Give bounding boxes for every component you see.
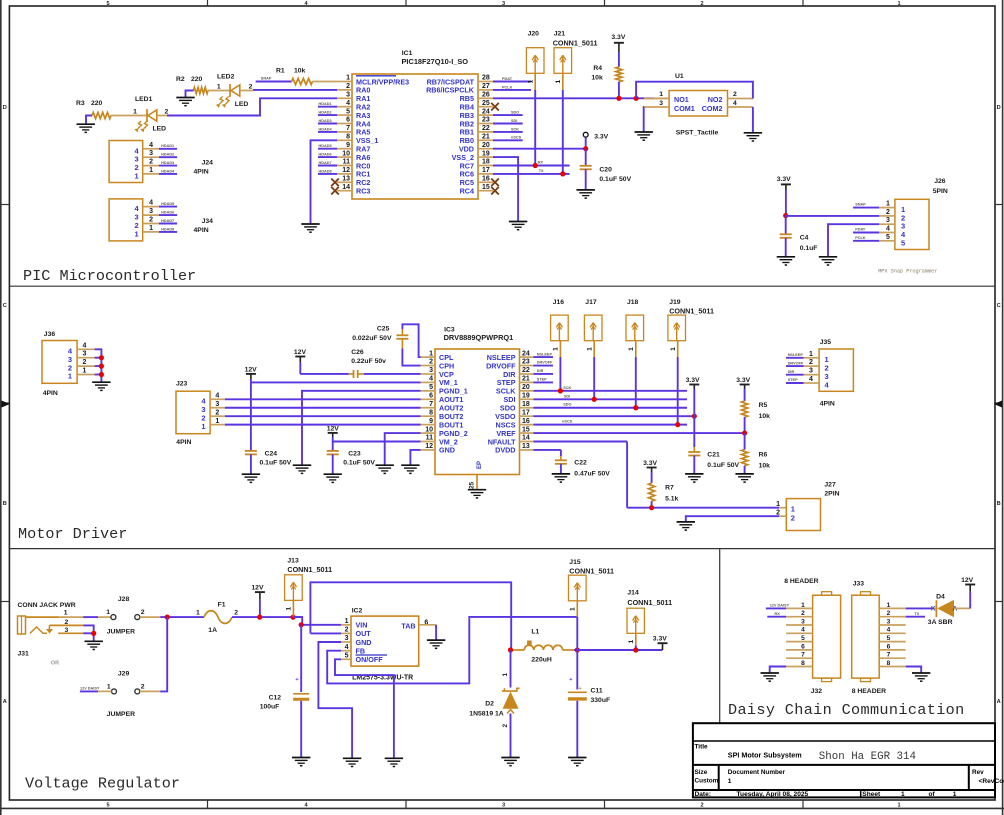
svg-text:RX: RX xyxy=(775,612,781,616)
svg-text:24: 24 xyxy=(522,350,530,357)
ground at IC3 EP xyxy=(468,489,486,491)
jumper J28 xyxy=(111,615,116,620)
svg-text:J32: J32 xyxy=(811,688,823,695)
svg-text:8 HEADER: 8 HEADER xyxy=(784,578,818,585)
IC1 no-connect pin 14 xyxy=(331,187,339,195)
svg-text:HDAD7: HDAD7 xyxy=(319,161,332,165)
connector J24 body xyxy=(109,141,143,183)
svg-text:1: 1 xyxy=(201,422,205,431)
J23 pin stubs and numbers xyxy=(210,398,225,400)
svg-text:12V DAISY: 12V DAISY xyxy=(770,604,790,608)
svg-text:LED1: LED1 xyxy=(135,96,153,103)
wire rail corner to VIN xyxy=(293,617,302,625)
svg-text:1: 1 xyxy=(135,171,139,180)
ground at C21 xyxy=(685,473,703,475)
svg-text:HDAD3: HDAD3 xyxy=(161,161,174,165)
svg-text:NO2: NO2 xyxy=(708,95,723,104)
connector J21 xyxy=(554,48,572,74)
wire DVDD to C22 xyxy=(533,449,561,451)
wire 12V DAISY to J29 xyxy=(80,690,98,692)
resistor R5 xyxy=(742,401,748,417)
wire J28 to F1 xyxy=(140,616,160,618)
svg-text:1: 1 xyxy=(107,684,111,691)
svg-text:GND: GND xyxy=(356,638,372,647)
microcontroller IC1 body xyxy=(352,74,478,199)
svg-text:4: 4 xyxy=(149,142,153,149)
svg-text:1: 1 xyxy=(728,778,732,785)
svg-text:J13: J13 xyxy=(287,557,299,564)
svg-text:12V: 12V xyxy=(327,426,340,433)
svg-text:19: 19 xyxy=(482,150,490,157)
svg-text:3: 3 xyxy=(346,92,350,99)
border frame xyxy=(0,0,2,815)
svg-text:Document Number: Document Number xyxy=(728,769,786,776)
wire C23 to ground xyxy=(332,454,334,474)
svg-text:2: 2 xyxy=(733,91,737,98)
LED2 emission arrows xyxy=(220,97,224,105)
wire OUT loop over IC2 xyxy=(310,632,341,634)
junction SCLK-J16 xyxy=(558,388,563,393)
svg-text:PIC Microcontroller: PIC Microcontroller xyxy=(23,267,196,285)
LED LED1 xyxy=(146,109,148,122)
daisy section divider vertical xyxy=(719,549,721,724)
svg-text:1: 1 xyxy=(570,607,577,611)
svg-text:C11: C11 xyxy=(591,688,603,695)
svg-text:Custom: Custom xyxy=(695,778,719,785)
junction VIN-C12 xyxy=(299,622,304,627)
svg-text:CONN1_5011: CONN1_5011 xyxy=(669,307,714,316)
svg-text:4: 4 xyxy=(215,393,219,400)
connector J34 pin stubs xyxy=(143,206,159,208)
svg-text:14: 14 xyxy=(342,184,350,191)
wire J33 pin8 to ground xyxy=(906,667,922,673)
J35 pin stubs and numbers xyxy=(804,357,820,359)
wire SNAP to J26 pin1 xyxy=(853,207,879,209)
svg-text:1: 1 xyxy=(68,372,72,381)
svg-text:HDAD6: HDAD6 xyxy=(319,153,332,157)
svg-text:220: 220 xyxy=(91,100,103,107)
svg-text:J29: J29 xyxy=(118,670,130,677)
svg-text:3.3V: 3.3V xyxy=(686,377,700,384)
wire 3.3V to J26 pin2 xyxy=(786,215,880,217)
svg-text:4: 4 xyxy=(886,226,890,233)
svg-text:2: 2 xyxy=(700,1,703,7)
svg-text:7: 7 xyxy=(887,652,891,659)
svg-text:1A: 1A xyxy=(208,627,217,634)
wire J15 to output node xyxy=(576,601,578,617)
svg-text:1: 1 xyxy=(502,673,509,677)
svg-text:12V: 12V xyxy=(294,349,307,356)
svg-text:5: 5 xyxy=(106,1,109,7)
wire 12V down to C23 xyxy=(332,442,334,451)
svg-text:Shon Ha EGR 314: Shon Ha EGR 314 xyxy=(819,751,916,763)
svg-text:23: 23 xyxy=(522,359,530,366)
svg-text:PDAT: PDAT xyxy=(502,77,513,81)
svg-text:10k: 10k xyxy=(759,413,771,420)
junction J29 branch xyxy=(165,615,170,620)
svg-text:6: 6 xyxy=(429,393,433,400)
svg-text:J15: J15 xyxy=(569,559,581,566)
svg-text:4: 4 xyxy=(83,342,87,349)
wire C12 to ground xyxy=(300,701,302,758)
svg-text:3: 3 xyxy=(801,618,805,625)
svg-text:100uF: 100uF xyxy=(260,703,280,710)
J31 pin 2 lead xyxy=(49,624,83,626)
svg-text:COM1: COM1 xyxy=(674,104,695,113)
svg-text:3: 3 xyxy=(429,367,433,374)
svg-text:1: 1 xyxy=(953,791,957,798)
wire C21 branch xyxy=(693,416,695,447)
svg-text:2: 2 xyxy=(215,409,219,416)
IC1 no-connect pin 13 xyxy=(331,179,339,187)
svg-text:19: 19 xyxy=(522,393,530,400)
junction 12V-rail xyxy=(257,615,262,620)
svg-text:3.3V: 3.3V xyxy=(611,34,625,41)
resistor R2 xyxy=(194,87,209,93)
capacitor C25 xyxy=(396,334,408,336)
svg-text:IC1: IC1 xyxy=(402,50,413,57)
switch U1 body xyxy=(669,91,727,117)
svg-text:C: C xyxy=(997,303,1001,309)
ground at J31 xyxy=(85,640,103,642)
svg-text:COM2: COM2 xyxy=(702,104,723,113)
wire VSS_2 to ground xyxy=(493,157,518,221)
svg-text:R5: R5 xyxy=(759,402,768,409)
wire J23 pin4 to AOUT1 xyxy=(225,398,421,400)
junction J31 pin3 xyxy=(91,631,96,636)
svg-text:3: 3 xyxy=(345,635,349,642)
wire J16 to SCLK xyxy=(559,341,561,357)
svg-text:Rev: Rev xyxy=(972,769,984,776)
svg-text:U1: U1 xyxy=(675,73,684,80)
diode D2 xyxy=(502,688,520,691)
svg-text:3: 3 xyxy=(83,351,87,358)
svg-text:3: 3 xyxy=(809,368,813,375)
svg-text:C24: C24 xyxy=(265,451,278,458)
svg-text:4: 4 xyxy=(887,627,891,634)
svg-text:D: D xyxy=(3,105,7,111)
svg-text:J19: J19 xyxy=(669,299,681,306)
ground at C22 xyxy=(552,473,570,475)
svg-text:7: 7 xyxy=(429,401,433,408)
wire J32 pin8 to ground xyxy=(770,667,786,673)
svg-text:2: 2 xyxy=(791,513,795,522)
svg-text:1: 1 xyxy=(217,84,221,91)
svg-text:3: 3 xyxy=(215,401,219,408)
svg-text:1: 1 xyxy=(286,607,293,611)
svg-text:C4: C4 xyxy=(800,235,809,242)
svg-text:RX: RX xyxy=(538,161,544,165)
capacitor C24 xyxy=(245,450,257,452)
svg-text:6: 6 xyxy=(346,117,350,124)
svg-text:R1: R1 xyxy=(276,68,285,75)
svg-text:STEP: STEP xyxy=(537,378,547,382)
ground at ON/OFF xyxy=(385,757,403,759)
svg-text:DVDD: DVDD xyxy=(495,446,515,455)
svg-text:SCK: SCK xyxy=(563,386,571,390)
svg-text:HDAD5: HDAD5 xyxy=(161,202,174,206)
wire J33 pin1 to D4 xyxy=(906,607,933,609)
svg-text:10k: 10k xyxy=(591,75,603,82)
ground at R2 xyxy=(176,97,194,99)
wire J23 pin2 to BOUT2 xyxy=(225,415,421,417)
LED LED2 xyxy=(229,84,231,97)
wire J21 to RC6 xyxy=(562,73,564,90)
svg-text:PCLK: PCLK xyxy=(502,85,513,89)
wire output node down to C11 xyxy=(576,650,578,690)
svg-text:J31: J31 xyxy=(18,650,30,657)
svg-text:12: 12 xyxy=(342,167,350,174)
svg-text:DRVOFF: DRVOFF xyxy=(788,361,804,365)
svg-text:2: 2 xyxy=(149,159,153,166)
svg-text:2: 2 xyxy=(83,359,87,366)
svg-text:1: 1 xyxy=(776,501,780,508)
svg-text:EP: EP xyxy=(477,461,483,469)
svg-text:C: C xyxy=(3,303,7,309)
svg-text:12V: 12V xyxy=(251,585,264,592)
svg-text:8: 8 xyxy=(801,660,805,667)
wire VREF to R6 xyxy=(744,433,746,449)
svg-text:22: 22 xyxy=(482,125,490,132)
svg-text:10k: 10k xyxy=(294,68,306,75)
wire L1 to D2 xyxy=(510,650,512,688)
svg-text:8 HEADER: 8 HEADER xyxy=(852,688,886,695)
svg-text:LED: LED xyxy=(153,126,167,133)
svg-text:of: of xyxy=(929,791,936,798)
svg-text:TAB: TAB xyxy=(401,621,415,630)
ground at VSS_1 xyxy=(301,223,319,225)
svg-text:1: 1 xyxy=(196,610,200,617)
wire VSDO to 3.3V xyxy=(533,415,694,417)
svg-text:DIR: DIR xyxy=(537,369,544,373)
wire SCLK xyxy=(533,390,687,392)
svg-text:Size: Size xyxy=(695,769,708,776)
svg-text:J20: J20 xyxy=(528,31,540,38)
svg-text:2: 2 xyxy=(346,83,350,90)
wire D4 to 12V xyxy=(954,607,970,609)
wire J27 pin2 to ground xyxy=(686,516,779,522)
svg-text:SDO: SDO xyxy=(563,403,571,407)
J26 pin stubs and numbers xyxy=(879,207,895,209)
svg-text:NSLEEP: NSLEEP xyxy=(788,353,804,357)
svg-text:5: 5 xyxy=(801,635,805,642)
wire C20 to ground xyxy=(585,169,587,189)
svg-text:HDAD6: HDAD6 xyxy=(161,211,174,215)
svg-text:IC2: IC2 xyxy=(352,608,363,615)
wire PGND_1 to ground xyxy=(302,391,421,465)
wire SDI xyxy=(533,398,687,400)
svg-text:25: 25 xyxy=(482,100,490,107)
svg-text:13: 13 xyxy=(342,176,350,183)
svg-text:6: 6 xyxy=(887,643,891,650)
svg-text:1: 1 xyxy=(897,803,900,809)
IC1 no-connect pin 16 xyxy=(491,179,499,187)
section divider line 1 xyxy=(9,285,995,287)
svg-text:330uF: 330uF xyxy=(591,697,611,704)
wire VM_1 xyxy=(251,381,421,383)
junction RC7-J20 xyxy=(533,163,538,168)
connector J18 xyxy=(626,315,644,341)
wire C21 to ground xyxy=(693,456,695,474)
svg-text:28: 28 xyxy=(482,75,490,82)
svg-text:J23: J23 xyxy=(176,381,188,388)
wire PGND_2 to ground xyxy=(385,433,421,465)
wire VREF to R5 xyxy=(533,432,744,434)
svg-text:2: 2 xyxy=(141,684,145,691)
wire R5 to VREF xyxy=(744,417,746,433)
daisy section divider bottom xyxy=(720,722,995,724)
svg-text:J24: J24 xyxy=(202,160,214,167)
svg-text:1: 1 xyxy=(897,1,900,7)
svg-text:12V: 12V xyxy=(961,577,974,584)
junction J13-rail xyxy=(291,615,296,620)
svg-text:11: 11 xyxy=(426,435,434,442)
J36 pin stubs and numbers xyxy=(77,348,95,350)
svg-text:10: 10 xyxy=(425,426,433,433)
connector J26 body xyxy=(895,199,929,249)
svg-text:D: D xyxy=(997,105,1001,111)
header J32 body xyxy=(813,595,841,678)
ground at C11 xyxy=(568,757,586,759)
svg-text:nSCS: nSCS xyxy=(511,136,522,140)
ground at C23 xyxy=(324,473,342,475)
svg-text:220: 220 xyxy=(191,76,203,83)
svg-text:1: 1 xyxy=(345,618,349,625)
svg-text:3: 3 xyxy=(149,208,153,215)
regulator IC2 body xyxy=(351,616,419,666)
svg-text:LED: LED xyxy=(235,101,249,108)
svg-text:SNAP: SNAP xyxy=(261,77,272,81)
svg-text:R3: R3 xyxy=(76,100,85,107)
ground at J26 pin3 xyxy=(819,256,837,258)
svg-text:HDAD8: HDAD8 xyxy=(319,169,332,173)
wire VSS_1 to ground xyxy=(311,140,338,224)
svg-text:1: 1 xyxy=(149,225,153,232)
junction RC6-J21 xyxy=(560,171,565,176)
svg-text:5: 5 xyxy=(429,384,433,391)
connector J13 xyxy=(285,575,303,601)
svg-text:25: 25 xyxy=(469,481,476,489)
ground at R6 xyxy=(735,473,753,475)
ground at C12 xyxy=(292,757,310,759)
wire 12V to C26 xyxy=(300,373,348,375)
svg-text:16: 16 xyxy=(482,176,490,183)
svg-text:13: 13 xyxy=(522,443,530,450)
svg-text:J33: J33 xyxy=(853,581,865,588)
svg-text:1: 1 xyxy=(670,347,677,351)
wire C24 to ground xyxy=(250,454,252,474)
svg-text:Title: Title xyxy=(695,743,708,750)
svg-text:HDAD3: HDAD3 xyxy=(319,119,332,123)
svg-text:RC3: RC3 xyxy=(356,187,370,196)
svg-text:3: 3 xyxy=(149,150,153,157)
wire R6 to ground xyxy=(744,466,746,474)
J33 pin stubs and numbers xyxy=(879,607,906,609)
capacitor C22 xyxy=(555,459,567,461)
connector J23 body xyxy=(176,391,210,434)
svg-text:0.1uF 50V: 0.1uF 50V xyxy=(343,460,375,467)
svg-text:12: 12 xyxy=(425,443,433,450)
ground at PGND_1 xyxy=(293,464,311,466)
IC1 HDAD net stubs xyxy=(318,106,337,108)
svg-text:10k: 10k xyxy=(759,463,771,470)
svg-text:5: 5 xyxy=(345,653,349,660)
svg-text:SPI Motor Subsystem: SPI Motor Subsystem xyxy=(728,751,802,760)
IC1 no-connect pin 25 xyxy=(491,103,499,111)
wire VM_2 xyxy=(333,441,421,443)
svg-text:+: + xyxy=(579,686,582,692)
svg-text:5: 5 xyxy=(887,635,891,642)
svg-text:J14: J14 xyxy=(627,590,639,597)
svg-text:3.3V: 3.3V xyxy=(653,636,667,643)
ground at U1 pin3 xyxy=(635,131,653,133)
node 3.3V circle xyxy=(583,132,588,137)
svg-text:2: 2 xyxy=(429,359,433,366)
svg-text:18: 18 xyxy=(482,159,490,166)
svg-text:3.3V: 3.3V xyxy=(736,377,750,384)
svg-text:1: 1 xyxy=(628,640,635,644)
junction J36 pin3 xyxy=(99,355,104,360)
U1 pin stubs xyxy=(644,98,669,100)
svg-text:5: 5 xyxy=(346,108,350,115)
svg-text:K: K xyxy=(931,605,936,612)
svg-text:J35: J35 xyxy=(820,339,832,346)
ground at C4 xyxy=(777,256,795,258)
svg-text:1: 1 xyxy=(809,351,813,358)
svg-text:JUMPER: JUMPER xyxy=(107,628,135,635)
svg-text:HDAD8: HDAD8 xyxy=(161,227,174,231)
svg-text:4PIN: 4PIN xyxy=(194,169,209,176)
connector J34 body xyxy=(109,199,143,241)
svg-text:26: 26 xyxy=(482,92,490,99)
junction U1loop-RB5 xyxy=(634,96,639,101)
wire PDAT to J26 pin4 xyxy=(853,232,879,234)
connector J20 xyxy=(526,48,544,74)
capacitor C20 xyxy=(585,149,587,166)
wire RC7 RX xyxy=(493,165,570,167)
svg-text:10: 10 xyxy=(342,150,350,157)
svg-text:+: + xyxy=(295,677,298,683)
svg-text:STEP: STEP xyxy=(788,378,798,382)
svg-text:TX: TX xyxy=(914,612,919,616)
svg-text:12V: 12V xyxy=(245,367,258,374)
svg-text:CONN1_5011: CONN1_5011 xyxy=(553,38,598,47)
svg-text:DRVOFF: DRVOFF xyxy=(537,361,553,365)
svg-text:GND: GND xyxy=(439,446,455,455)
wire NSCS xyxy=(533,424,687,426)
wire RX to J32 pin2 xyxy=(767,616,786,618)
junction VSDO-C21 xyxy=(692,414,697,419)
svg-text:2: 2 xyxy=(886,209,890,216)
driver IC3 body xyxy=(435,349,520,475)
svg-text:C20: C20 xyxy=(599,167,612,174)
svg-text:2: 2 xyxy=(809,359,813,366)
wire LED1 to IC1 pin3 RA1 xyxy=(157,115,167,117)
capacitor C26 xyxy=(353,370,355,378)
svg-text:1: 1 xyxy=(791,505,795,514)
resistor R3 xyxy=(92,112,111,118)
svg-text:2: 2 xyxy=(345,627,349,634)
svg-text:TX: TX xyxy=(539,169,544,173)
connector J24 pin stubs xyxy=(143,148,159,150)
J31 pin 3 lead xyxy=(58,632,83,634)
svg-text:14: 14 xyxy=(522,435,530,442)
svg-text:HDAD2: HDAD2 xyxy=(319,111,332,115)
wire D2 to ground xyxy=(510,714,512,758)
wire R2 to LED2 xyxy=(208,90,230,92)
svg-text:0.022uF 50V: 0.022uF 50V xyxy=(352,335,392,342)
wire C4 to ground xyxy=(785,238,787,257)
